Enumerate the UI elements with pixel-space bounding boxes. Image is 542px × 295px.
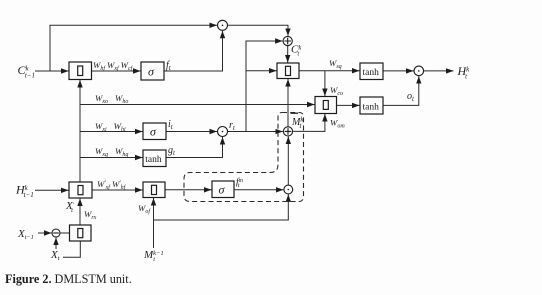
concat box B2 [69,182,92,198]
wire: X1 output right then down into plus P1 [228,25,289,36]
svg-text:Mk−1t: Mk−1t [143,249,164,263]
concat box B6 [143,182,165,198]
minus node M1 [52,229,60,237]
wire: r_t from X2 to plus P2 [228,131,283,133]
svg-text:it: it [168,119,174,131]
multiply node X2 [218,127,228,137]
wire: f_t from S1 up into multiply X1 [164,31,223,71]
wire: o_t from T3 up into X4 bottom [383,76,419,105]
svg-text:gt: gt [168,145,176,157]
concat box B5 [70,225,92,241]
tanh box T3 [360,97,383,114]
svg-text:W′xfW′hf: W′xfW′hf [97,179,127,191]
wire: M1 output into B5 [60,232,70,234]
svg-text:WxoWho: WxoWho [95,93,128,105]
wire: branch up from C line to top row [50,25,217,71]
svg-text:X′t: X′t [65,200,75,214]
wire: B2 output to B6 [92,189,143,191]
tanh box T2 [360,63,383,80]
wire: X3 output up into P2 bottom [287,137,289,186]
wire: X_t up into M1 bottom [55,238,57,250]
wire: trunk from B2 up to B1 bottom [79,80,81,182]
wire: output-gate row to B4 [80,104,315,106]
wire: f_m from S3 to multiply X3 [234,189,283,191]
wire: g_t from T1 up into X2 bottom [166,137,223,158]
svg-text:WxgWhg: WxgWhg [95,146,128,158]
svg-text:ot: ot [407,91,415,103]
wire: C_{t-1} input to concat B1 [35,70,69,72]
wire: M^{k-1} trunk up into B6 bottom [153,198,155,248]
wire: B4 output to tanh T3 [335,104,360,106]
wire: H_{t-1} input to B2 [35,189,69,191]
svg-text:fmt: fmt [236,177,244,190]
dashed memory-module outline [184,113,304,202]
svg-text:rt: rt [229,120,236,132]
svg-text:Hkt: Hkt [457,64,471,80]
svg-text:Mkt: Mkt [291,116,304,131]
wire: M branch right and up into X3 bottom [154,194,289,220]
multiply node X4 [414,66,424,76]
wire: B3 output (W_sq) to tanh T2 [299,70,360,72]
plus node P1 [283,36,292,45]
wire: i_t from S2 to multiply X2 [166,131,217,133]
plus node P2 [283,127,292,136]
svg-text:Xt: Xt [50,249,60,262]
svg-text:Wrx: Wrx [84,209,97,221]
svg-text:tanh: tanh [363,68,380,78]
svg-text:ft: ft [166,60,172,72]
wire: P2 output right and up into B4 bottom [293,114,325,131]
wire: branch W_co down into B4 top [324,71,326,96]
wire: P1 output down into B3 top [287,46,289,63]
concat box B4 [315,97,337,114]
wire: g row to tanh T1 [80,157,143,159]
svg-text:tanh: tanh [363,103,380,113]
svg-text:Ckt: Ckt [291,44,301,58]
wire: branch r_t up to plus P1 [246,41,283,132]
wire: P2 output up into B3 bottom [287,79,289,127]
wire: branch r_t into B3 left [246,70,277,72]
concat box B1 [69,62,92,80]
wire: X_{t-1} into minus M1 [38,232,52,234]
sigma box S1 [141,62,164,80]
wire: T2 output to multiply X4 [383,70,414,72]
wire: X'_t from B5 up into B2 bottom [79,199,81,226]
svg-text:Figure 2. DMLSTM unit.: Figure 2. DMLSTM unit. [5,272,132,286]
wire: X_t right and up into B5 bottom [63,241,80,257]
wire: B6 output to sigma S3 [165,189,212,191]
sigma box S2 [143,123,166,140]
tanh box T1 [143,150,166,167]
wire: input-gate row to S2 [80,131,143,133]
wire: B1 output to sigma S1 [92,70,141,72]
svg-text:Wsq: Wsq [329,58,342,70]
svg-text:Wof: Wof [138,203,151,215]
svg-text:Ckt−1: Ckt−1 [18,63,35,79]
multiply node X3 [284,185,293,194]
svg-text:Hkt−1: Hkt−1 [15,183,34,199]
multiply node X1 [218,20,228,30]
concat box B3 [277,63,299,79]
svg-text:Wco: Wco [330,85,343,97]
svg-text:tanh: tanh [145,155,162,165]
wire: X4 output to H_t [424,70,454,72]
svg-text:Wom: Wom [330,117,345,129]
sigma box S3 [212,181,234,198]
svg-text:WhfWxfWcf: WhfWxfWcf [93,60,134,72]
svg-text:Xt−1: Xt−1 [17,228,34,241]
